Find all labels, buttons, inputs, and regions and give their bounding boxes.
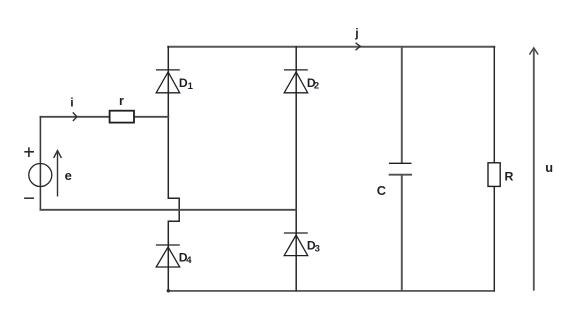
svg-text:3: 3 xyxy=(315,244,320,255)
wire source top xyxy=(40,116,168,118)
svg-text:R: R xyxy=(505,170,514,184)
source minus sign xyxy=(24,197,34,199)
svg-text:j: j xyxy=(354,26,358,40)
source e circle xyxy=(29,164,52,187)
svg-text:r: r xyxy=(119,94,124,108)
capacitor C top plate xyxy=(389,162,412,164)
diode D4 xyxy=(156,245,180,267)
wire source left xyxy=(39,117,41,210)
svg-text:4: 4 xyxy=(186,255,192,266)
source plus sign xyxy=(24,147,34,157)
diode D3 xyxy=(284,233,308,256)
wire bottom bus xyxy=(168,290,494,292)
svg-text:D: D xyxy=(179,76,188,90)
svg-text:u: u xyxy=(545,160,553,175)
diode D2 xyxy=(284,70,308,93)
arrow u xyxy=(533,49,535,291)
svg-text:2: 2 xyxy=(314,81,319,92)
svg-text:C: C xyxy=(377,183,386,198)
wire resistor R leg xyxy=(493,47,495,291)
svg-text:i: i xyxy=(70,96,73,110)
resistor r xyxy=(110,111,134,123)
resistor R xyxy=(488,163,500,187)
diode D1 xyxy=(156,70,180,93)
arrow e xyxy=(54,151,62,197)
wire left bridge leg with crossover jog xyxy=(168,47,179,291)
wire top bus xyxy=(168,46,494,48)
wire right bridge leg xyxy=(295,47,297,291)
arrow u head xyxy=(529,48,538,55)
wire capacitor leg lower xyxy=(401,175,403,291)
svg-text:e: e xyxy=(65,168,72,183)
capacitor C bottom plate xyxy=(389,174,412,176)
svg-text:1: 1 xyxy=(188,81,194,92)
wire source bottom xyxy=(40,209,296,211)
arrow i chevron xyxy=(73,112,77,121)
arrow j chevron xyxy=(356,43,361,50)
junction dot at D4 leg / bottom bus xyxy=(167,289,170,292)
wire capacitor leg upper xyxy=(401,47,403,164)
